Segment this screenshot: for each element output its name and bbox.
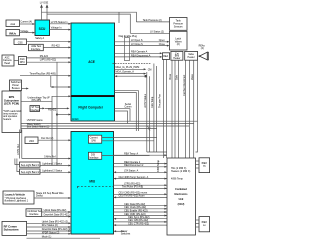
- wire vertical trunk x57: [56, 62, 58, 165]
- svg-text:Timer/Reg Bus (RS-485): Timer/Reg Bus (RS-485): [30, 73, 56, 76]
- wire MIU-CEU clock: [114, 206, 168, 210]
- wire ST test to ACE: [40, 107, 70, 111]
- svg-text:Launch Vehicle: Launch Vehicle: [5, 192, 26, 196]
- wire RF status 2: [27, 231, 72, 234]
- svg-text:4096 Temp: 4096 Temp: [171, 178, 183, 181]
- wire EPS bus 3: [21, 125, 157, 128]
- svg-text:RS-422: RS-422: [48, 108, 57, 111]
- svg-text:LV GSE: LV GSE: [40, 1, 49, 4]
- svg-text:Heater: Heater: [188, 56, 195, 59]
- wire MIU-CEU rea temp: [114, 152, 168, 156]
- node LV GSE: [40, 1, 49, 4]
- wire REA operate: [115, 51, 163, 55]
- svg-text:Mode (1): Mode (1): [42, 236, 52, 239]
- box Sep-Light Band 1: [20, 162, 41, 167]
- wire DPU to ACE LVPS: [27, 59, 72, 64]
- wire mid verticals to CEU: [147, 151, 167, 153]
- wire vertical mid 2: [149, 76, 151, 152]
- wire vertical far right: [196, 60, 198, 152]
- Flight Computer block U2: [71, 96, 115, 122]
- wire LV GSE arrow 2: [46, 4, 49, 20]
- wire MIU-CEU ctr: [114, 222, 168, 226]
- svg-text:Voltage In: Voltage In: [51, 27, 62, 30]
- wire MIU-CEU rea operate: [114, 161, 168, 165]
- svg-text:REA Disconnect 2: REA Disconnect 2: [124, 164, 144, 167]
- box Latch Valves: [170, 31, 188, 50]
- svg-text:MIU: MIU: [89, 179, 96, 183]
- wire DPU to ACE rs422: [27, 55, 72, 59]
- wire switched power arrow: [22, 88, 29, 90]
- svg-text:illustrated Lightband 1: illustrated Lightband 1: [5, 199, 29, 202]
- svg-text:Safe: Safe: [176, 74, 179, 80]
- svg-text:Open: Open: [159, 39, 166, 42]
- wire MIU-CEU tm acum: [114, 195, 168, 199]
- resistor-like box: Tank Pressure Sensors: [170, 18, 188, 31]
- svg-text:LV Status (2): LV Status (2): [150, 30, 164, 33]
- wire camera head to DPU: [14, 60, 19, 62]
- svg-text:MGA_IA_PLUS_PWM: MGA_IA_PLUS_PWM: [116, 66, 140, 69]
- wire IMUs to SCU: [20, 30, 36, 34]
- box Cat Bed Heater: [171, 51, 183, 60]
- svg-text:Close: Close: [159, 43, 166, 46]
- wire vertical mid 1: [146, 72, 148, 152]
- wire vertical valve 3: [193, 60, 195, 158]
- svg-text:Safety A: Safety A: [35, 37, 44, 40]
- svg-text:LV/PV Status: LV/PV Status: [144, 93, 147, 108]
- label power switches with arrow: [114, 230, 132, 236]
- svg-text:Voltage: Voltage: [20, 30, 29, 33]
- svg-text:LV Open S: LV Open S: [131, 39, 143, 42]
- box ACal: [6, 20, 20, 27]
- wire MGA pwm 1: [115, 66, 152, 71]
- svg-text:S/W: S/W: [91, 140, 96, 143]
- wire vertical trunk x52: [51, 101, 53, 165]
- box IBEX-Lo: [199, 217, 210, 232]
- wire vertical catbed 3: [177, 60, 179, 158]
- wire MIU box2 out: [102, 155, 150, 157]
- svg-text:Press: Press: [169, 73, 172, 80]
- svg-text:(RS-485): (RS-485): [32, 99, 42, 102]
- wire lightband2 status: [40, 170, 71, 174]
- wire RF uplink: [27, 220, 72, 224]
- wire x57 to flight computer: [57, 114, 71, 116]
- svg-text:Interface: Interface: [29, 213, 39, 216]
- box IBEX-Hi: [199, 158, 210, 173]
- svg-text:Osc Out (2): Osc Out (2): [41, 137, 54, 140]
- box ASC Camera Head: [2, 55, 14, 66]
- wire MIU-CEU ob: [114, 219, 168, 223]
- box CSS: [14, 39, 27, 45]
- svg-text:Flight Computer: Flight Computer: [78, 105, 103, 109]
- node junction dot x57 y114.5: [56, 113, 58, 115]
- wire vertical catbed 1: [171, 60, 173, 158]
- wire SCU to ACE 1: [50, 21, 72, 25]
- svg-text:(2): (2): [177, 43, 180, 46]
- svg-text:Unit: Unit: [179, 198, 184, 201]
- wire lightband stubs: [15, 159, 20, 172]
- wire vertical mid 3: [153, 64, 155, 153]
- box RF Comm Subsystem: [2, 221, 27, 235]
- wire EPS bus 2: [21, 123, 189, 126]
- svg-text:Subsystem: Subsystem: [4, 228, 19, 232]
- wire ACE Test IF to ACE: [43, 45, 71, 49]
- wire MIU-CEU data: [114, 203, 168, 207]
- svg-text:Electronics: Electronics: [175, 193, 189, 196]
- wires CEU to IBEX-Hi: [196, 161, 200, 168]
- svg-text:REA Temp: REA Temp: [151, 96, 154, 108]
- svg-text:USO: USO: [29, 140, 34, 143]
- svg-text:(SCP, PCM): (SCP, PCM): [4, 102, 19, 106]
- wire vertical catbed 2: [174, 60, 176, 158]
- box ASC DPU: [19, 57, 27, 65]
- svg-text:REA Disconnect A: REA Disconnect A: [131, 54, 151, 57]
- wire top bus y14 to tank/LV column: [47, 14, 130, 33]
- wire vertical REA 2: [166, 59, 168, 158]
- wire serial comm d: [115, 111, 128, 124]
- wire MGA pwm 2: [115, 71, 147, 75]
- svg-text:Uplink Data (RS-422) (2): Uplink Data (RS-422) (2): [42, 220, 69, 223]
- svg-text:Heater: Heater: [173, 57, 180, 60]
- svg-text:CEU 4096 Temp Sensors A: CEU 4096 Temp Sensors A: [119, 176, 149, 179]
- wire SCU to ACE 2: [50, 27, 72, 31]
- wire LV open: [115, 39, 170, 43]
- svg-text:Lightband 1 Status: Lightband 1 Status: [42, 163, 63, 166]
- svg-text:Tank Pressure (2): Tank Pressure (2): [143, 19, 162, 22]
- svg-text:Sensors: Sensors: [174, 25, 184, 28]
- DSI Interface box inside MIU: [88, 152, 101, 159]
- svg-text:LV Close S: LV Close S: [131, 43, 143, 46]
- label REAs (4): [199, 45, 206, 51]
- svg-text:Combined: Combined: [175, 188, 187, 191]
- svg-text:Comm: Comm: [124, 105, 131, 108]
- box CEU: [167, 158, 196, 235]
- box Launch Vehicle: [3, 191, 34, 204]
- svg-text:(CEU): (CEU): [178, 203, 185, 206]
- node bus tick: [148, 126, 151, 131]
- svg-text:IMUs: IMUs: [9, 32, 16, 36]
- svg-text:heaters: heaters: [3, 118, 12, 121]
- Current S/W box inside MIU: [88, 135, 101, 143]
- svg-text:5 MHz Ref: 5 MHz Ref: [44, 155, 56, 158]
- wire vertical valve 2: [188, 60, 190, 158]
- wire umbilical uplink: [42, 209, 71, 213]
- svg-text:Valve: Valve: [191, 74, 194, 80]
- wire MIU-CEU cmd mums: [114, 192, 168, 196]
- wire CSS to ACE: [27, 37, 72, 43]
- SCU block U4: [35, 20, 50, 36]
- wire vertical REA 1: [163, 59, 165, 158]
- wire ACal to SCU: [20, 20, 36, 25]
- wire MIU-CEU test pulse: [114, 186, 168, 190]
- wire MIU-CEU lta status: [114, 170, 168, 174]
- box Switched Power Busses: [10, 80, 22, 91]
- box Valve Heater: [185, 51, 198, 60]
- svg-text:4096 Temp: 4096 Temp: [157, 160, 160, 172]
- wire MIU-CEU ltps: [114, 183, 168, 187]
- svg-text:Downlink Data (RS-422): Downlink Data (RS-422): [44, 214, 70, 217]
- box ACE Test Interface: [29, 44, 44, 51]
- svg-text:Current (4): Current (4): [20, 20, 32, 23]
- wire MIU-CEU enable: [114, 209, 168, 213]
- svg-text:REA: REA: [163, 55, 168, 58]
- svg-text:LVPS (RS-422): LVPS (RS-422): [40, 59, 57, 62]
- wire branch x50.8 down: [50, 76, 52, 87]
- svg-text:Acal: Acal: [10, 23, 15, 26]
- svg-text:Cat Bed Disconnect: Cat Bed Disconnect: [183, 75, 186, 96]
- label serial comm: [124, 103, 131, 109]
- svg-text:CM: CM: [148, 69, 152, 72]
- wire top bus y12 to ACE top: [42, 12, 137, 22]
- wire USO to MIU: [38, 137, 71, 141]
- wire MIU-CEU temp sensors: [114, 176, 168, 180]
- wire RF status 1: [27, 224, 72, 228]
- svg-text:Sep-Light Band 1: Sep-Light Band 1: [21, 164, 40, 167]
- connector flag enable plug: [124, 38, 129, 61]
- svg-text:GN&C: GN&C: [72, 118, 79, 121]
- wire MIU box1 out b: [102, 140, 154, 142]
- svg-text:Interface: Interface: [31, 48, 41, 51]
- wires CEU to IBEX-Lo: [196, 220, 200, 227]
- svg-text:1PPS Out: 1PPS Out: [17, 144, 20, 155]
- svg-text:Uplink Data (RS-422): Uplink Data (RS-422): [44, 209, 67, 212]
- box ST Test Interface: [30, 106, 41, 112]
- box EPS Subsystem: [2, 91, 22, 133]
- box Umbilical Test Interface: [26, 209, 42, 217]
- wire MIU-CEU sync: [114, 216, 168, 220]
- wire timer reg bus: [20, 73, 71, 77]
- svg-text:REA Operate A: REA Operate A: [131, 51, 148, 54]
- wire LV status: [130, 30, 169, 33]
- svg-text:Switches: Switches: [121, 232, 131, 235]
- wire EPS bus 1: [21, 119, 194, 123]
- svg-text:Lightband 2 Status: Lightband 2 Status: [42, 170, 63, 173]
- wire REA disconnect: [115, 54, 163, 58]
- svg-text:Interface: Interface: [89, 156, 99, 159]
- wire serial comm c: [115, 109, 131, 122]
- wire branch to ACE top: [118, 12, 120, 23]
- wire uso vertical pair: [17, 130, 22, 159]
- svg-text:XPDR Status (2): XPDR Status (2): [42, 231, 60, 234]
- svg-text:Rcvr Status (2): Rcvr Status (2): [42, 224, 58, 227]
- wire LV GSE arrow 1: [40, 4, 43, 20]
- thruster nozzle symbol: [199, 52, 207, 60]
- wire serial comm a: [115, 91, 139, 131]
- svg-text:REA Temp A: REA Temp A: [124, 152, 138, 155]
- wire lightband1 status: [40, 163, 71, 167]
- box USO: [25, 137, 38, 144]
- svg-text:CSS: CSS: [18, 41, 23, 44]
- wire stage sep break: [34, 192, 71, 199]
- wire dashed heater: [112, 63, 150, 65]
- wire double arrow to ACE: [51, 86, 71, 88]
- wire umbilical downlink: [42, 214, 71, 218]
- wire RF downlink: [27, 228, 72, 232]
- wire RF bottom: [27, 236, 101, 239]
- svg-text:CEU TM (RS-422) Acum: CEU TM (RS-422) Acum: [119, 195, 145, 198]
- svg-text:Test Pulse (PS-A/B): Test Pulse (PS-A/B): [122, 186, 143, 189]
- box Sep-Light Band 2: [20, 169, 41, 174]
- MIU block U3: [71, 132, 114, 235]
- wire ACE aux square: [115, 75, 148, 77]
- svg-text:MGA_Operate_A: MGA_Operate_A: [116, 71, 135, 74]
- wire MIU-CEU cmd: [114, 213, 168, 217]
- svg-text:Heaters (2 MDI X): Heaters (2 MDI X): [171, 170, 190, 173]
- wire tank pressure: [136, 19, 169, 22]
- svg-text:Sep-Light Band 2: Sep-Light Band 2: [21, 171, 40, 174]
- wire 5MHz ref to MIU: [22, 155, 71, 159]
- svg-text:Busses: Busses: [12, 87, 21, 90]
- wire MIU box1 out a: [102, 137, 157, 139]
- wire MIU-CEU rea disconnect: [114, 164, 168, 168]
- svg-text:(4): (4): [201, 47, 204, 50]
- svg-text:Head: Head: [4, 62, 10, 65]
- wire FC serial bus: [115, 120, 198, 122]
- svg-text:DPU: DPU: [20, 61, 25, 64]
- svg-text:RS-422: RS-422: [52, 45, 61, 48]
- svg-text:LV PS Status In: LV PS Status In: [51, 21, 68, 24]
- wire vertical mid 4: [155, 66, 157, 152]
- wire serial comm b: [115, 93, 137, 132]
- svg-text:Bus Switch Mains (2): Bus Switch Mains (2): [27, 125, 50, 128]
- wire vertical valve 1: [185, 60, 187, 158]
- svg-text:Thruster Pwr: Thruster Pwr: [158, 94, 161, 108]
- box REA: [162, 53, 169, 60]
- wire LV close: [115, 43, 170, 47]
- box IMUs: [6, 30, 20, 36]
- svg-text:LTA Status A: LTA Status A: [124, 170, 139, 173]
- wire undervoltage trip: [21, 95, 71, 102]
- svg-text:CEU CTR (RS-422): CEU CTR (RS-422): [128, 222, 149, 225]
- svg-text:UVTRIP mains: UVTRIP mains: [27, 119, 44, 122]
- svg-text:ACE: ACE: [88, 60, 95, 64]
- svg-text:SCU: SCU: [39, 27, 46, 31]
- svg-text:RS-422: RS-422: [40, 55, 49, 58]
- ACE block U1: [71, 23, 115, 96]
- svg-text:Detect: Detect: [36, 194, 43, 197]
- svg-text:Interface: Interface: [31, 109, 41, 112]
